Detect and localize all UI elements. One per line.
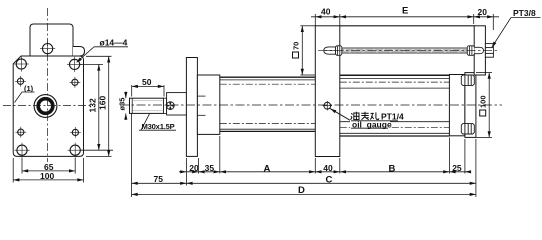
- dim 65: [22, 158, 75, 174]
- rod end knob: [166, 102, 174, 110]
- oil port circle: [323, 101, 332, 110]
- pseudo CJK glyphs 油表孔: [351, 112, 379, 120]
- dim 40 top: [311, 14, 474, 26]
- svg-text:20: 20: [478, 7, 488, 17]
- svg-text:ø14—4: ø14—4: [100, 37, 128, 47]
- small hole left upper: [15, 76, 26, 87]
- svg-text:160: 160: [97, 96, 107, 110]
- dim dia35: [125, 92, 127, 121]
- rod gland boss: [167, 93, 187, 115]
- svg-text:100: 100: [479, 95, 488, 108]
- A tube lines: [220, 77, 315, 131]
- svg-text:75: 75: [154, 174, 164, 184]
- svg-text:oil gauge: oil gauge: [352, 119, 392, 129]
- middle plate: [315, 26, 340, 157]
- right rod nut: [467, 46, 474, 56]
- dim E: [340, 15, 346, 18]
- dim 160: [86, 56, 112, 156]
- tie rod nut top: [461, 75, 474, 85]
- svg-text:100: 100: [40, 171, 54, 181]
- small hole right lower: [70, 127, 81, 138]
- svg-text:50: 50: [142, 77, 152, 87]
- svg-text:B: B: [389, 163, 396, 174]
- chain dim line row1: [179, 171, 470, 173]
- upper rear plate: [474, 26, 485, 75]
- dim 100: [13, 158, 83, 183]
- dim row2 75 / C: [132, 182, 476, 184]
- dim 132: [80, 64, 113, 150]
- svg-text:A: A: [264, 163, 271, 174]
- upper tube top edge: [340, 25, 474, 27]
- front plate: [13, 56, 83, 156]
- svg-text:70: 70: [292, 42, 301, 50]
- svg-text:ø35: ø35: [117, 98, 126, 111]
- upper centerline: [318, 49, 499, 51]
- small hole right upper: [70, 77, 81, 88]
- hole top-right: [67, 57, 82, 72]
- rod gland lines: [197, 95, 205, 97]
- center bore: [34, 95, 57, 118]
- svg-text:E: E: [402, 6, 408, 17]
- front plate (side): [186, 58, 197, 157]
- svg-text:M30x1.5P: M30x1.5P: [142, 122, 175, 131]
- tab hole: [40, 41, 55, 56]
- top tab: [30, 24, 73, 56]
- upper tube bottom edge: [340, 74, 450, 76]
- dim row3 D: [132, 193, 476, 195]
- main centerline: [120, 104, 502, 106]
- dim 50: [132, 85, 164, 97]
- tie rod nut bottom: [461, 124, 474, 134]
- svg-text:40: 40: [323, 163, 333, 173]
- tie rod: [342, 48, 468, 53]
- svg-text:25: 25: [452, 163, 462, 173]
- svg-text:D: D: [298, 185, 305, 196]
- rod bullet end: [324, 47, 336, 54]
- svg-text:40: 40: [321, 7, 331, 17]
- rear plate (lower): [465, 73, 476, 138]
- extension lines: [132, 114, 476, 198]
- side tab right: [73, 47, 85, 57]
- svg-text:20: 20: [189, 163, 199, 173]
- svg-text:PT3/8: PT3/8: [513, 8, 536, 18]
- left view horizontal centerline: [3, 105, 92, 107]
- hole top-left: [14, 56, 29, 71]
- hole bottom-left: [14, 143, 29, 158]
- PT3/8 port plug: [485, 44, 493, 58]
- left rod nut: [336, 46, 342, 56]
- B tube lines: [340, 75, 450, 136]
- small hole left lower: [15, 127, 26, 138]
- rear head block: [449, 75, 465, 136]
- left view vertical centerline: [47, 8, 49, 162]
- threaded rod: [130, 98, 164, 113]
- rod end through plate: [474, 47, 483, 53]
- svg-text:C: C: [326, 174, 333, 185]
- dim sq100: [476, 73, 492, 138]
- rod collar: [164, 98, 167, 113]
- svg-text:35: 35: [205, 163, 215, 173]
- dim sq70: [300, 26, 315, 75]
- oil gauge label: [330, 108, 351, 121]
- front head block: [197, 75, 219, 134]
- dim 20 top: [474, 14, 499, 30]
- hole bottom-right: [68, 143, 83, 158]
